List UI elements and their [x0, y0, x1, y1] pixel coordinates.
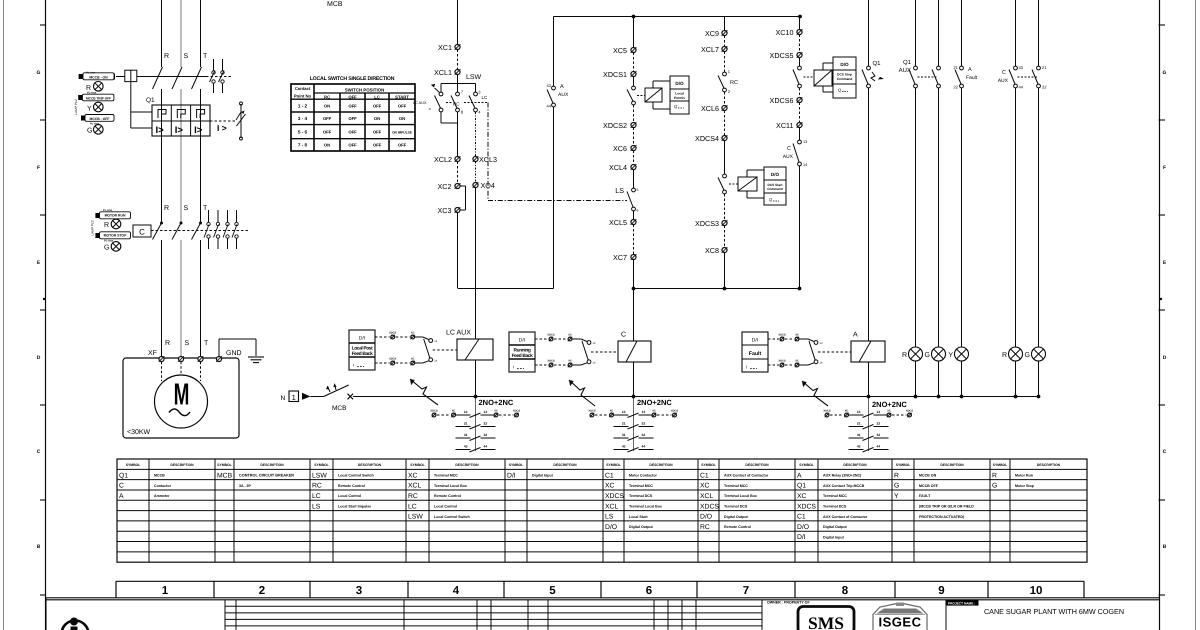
undervoltage coil box: [125, 70, 137, 81]
svg-text:MCB: MCB: [327, 1, 343, 8]
svg-text:D/O: D/O: [700, 514, 712, 521]
trip flag: [240, 104, 242, 138]
svg-text:3: 3: [356, 585, 362, 597]
border tick y215: [40, 214, 46, 216]
contact Q1 trip: [867, 66, 871, 70]
svg-text:XCL1: XCL1: [434, 68, 452, 77]
svg-text:LOCAL SWITCH SINGLE DIRECTI: LOCAL SWITCH SINGLE DIRECTION: [310, 76, 395, 82]
svg-text:MCCB - OFF: MCCB - OFF: [90, 117, 110, 121]
svg-text:XF: XF: [148, 350, 157, 357]
svg-text:A: A: [853, 332, 858, 339]
lamp motor run R: [1009, 347, 1023, 361]
svg-text:Terminal DCS: Terminal DCS: [724, 504, 748, 508]
svg-text:B: B: [37, 544, 41, 550]
svg-text:Permis: Permis: [674, 96, 685, 100]
svg-text:OFF: OFF: [373, 143, 382, 148]
svg-text:ON: ON: [324, 143, 330, 148]
wire XC11 down: [799, 128, 801, 141]
svg-text:D/O: D/O: [605, 524, 617, 531]
thermal element: [177, 110, 185, 119]
svg-text:2NO+2NC: 2NO+2NC: [637, 398, 672, 407]
svg-text:XC: XC: [568, 360, 572, 363]
svg-text:13: 13: [857, 410, 861, 414]
wire column Q1 AUX lamp R: [915, 0, 917, 66]
motor terminal PE: [216, 356, 221, 361]
label project name: [947, 600, 979, 606]
wire trip link dashed: [137, 76, 206, 78]
terminals local post feed back upper: [375, 336, 390, 338]
svg-text:Digital Output: Digital Output: [629, 525, 654, 529]
wire XC5-XDCS1 dashed: [633, 53, 635, 72]
wire XC8 to bottom bus: [724, 253, 726, 289]
wire XC9-XCL7 dashed: [724, 36, 726, 47]
svg-text:ISGEC: ISGEC: [879, 615, 922, 630]
svg-text:MOTOR RUN: MOTOR RUN: [105, 214, 126, 218]
actuate arrow 2: [569, 380, 595, 406]
wire XCL5-XC7 dashed: [633, 225, 635, 255]
relay coil LC AUX: [457, 339, 493, 360]
wire XDCS3-XC8 dashed: [724, 226, 726, 248]
wire XDCS5 down: [799, 58, 801, 67]
changeover contact fault: [799, 338, 808, 340]
svg-text:MCCB ON: MCCB ON: [919, 474, 937, 478]
svg-text:XDCS: XDCS: [906, 410, 913, 413]
wire N line: [353, 396, 1039, 398]
junction top bus x800: [798, 15, 802, 19]
border tick y405: [40, 404, 46, 406]
svg-text:Digital Output: Digital Output: [724, 515, 749, 519]
svg-text:Remote Control: Remote Control: [724, 525, 751, 529]
svg-text:21: 21: [954, 65, 959, 70]
svg-text:8: 8: [842, 585, 849, 597]
svg-text:OFF: OFF: [373, 130, 382, 135]
svg-text:RC: RC: [453, 102, 460, 107]
svg-text:43: 43: [622, 445, 626, 449]
svg-text:XC: XC: [411, 358, 415, 361]
svg-text:C1: C1: [605, 472, 614, 479]
terminal XC8: [722, 247, 727, 252]
svg-text:13: 13: [622, 410, 626, 414]
svg-text:DESCRIPTION: DESCRIPTION: [260, 463, 284, 467]
wire motor leads dashed: [161, 362, 163, 381]
x junction MCB: [348, 394, 354, 400]
wire phase S: [180, 0, 182, 67]
wire XCL3-XO4: [475, 162, 477, 183]
svg-text:<30KW: <30KW: [127, 429, 151, 436]
N terminal box 1: [289, 391, 299, 402]
svg-text:ON: ON: [399, 116, 405, 121]
svg-text:SWITCH POSITION: SWITCH POSITION: [345, 88, 385, 93]
wire column C aux lamp R: [1015, 0, 1017, 66]
svg-text:LS: LS: [615, 186, 624, 195]
svg-text:XDCS: XDCS: [513, 410, 520, 413]
svg-text:4: 4: [453, 585, 460, 597]
svg-text:D/O: D/O: [840, 62, 849, 67]
svg-text:ON: ON: [324, 104, 330, 109]
svg-text:AUX Relay (2NO+2NC): AUX Relay (2NO+2NC): [823, 474, 862, 478]
border right inner: [1159, 0, 1161, 630]
svg-text:I>: I>: [194, 125, 203, 136]
actuate arrow 1: [410, 379, 438, 405]
svg-text:D/O: D/O: [797, 524, 809, 531]
terminal XCL6: [722, 105, 727, 110]
svg-text:22: 22: [642, 422, 646, 426]
svg-text:XC: XC: [797, 493, 807, 500]
svg-text:OFF: OFF: [398, 104, 407, 109]
svg-text:C: C: [1163, 449, 1167, 455]
aux contact block C row 31-32: [614, 437, 629, 439]
svg-text:C: C: [37, 449, 41, 455]
border left inner: [45, 0, 47, 630]
contactor C coil box: [133, 225, 151, 237]
svg-text:D: D: [1163, 355, 1167, 361]
LSW contact RC pins 7 8: [456, 92, 460, 96]
svg-text:DESCRIPTION: DESCRIPTION: [1037, 463, 1061, 467]
svg-text:Local Control Switch: Local Control Switch: [338, 474, 374, 478]
d/o box local permis: [652, 81, 654, 88]
svg-text:21: 21: [857, 422, 861, 426]
svg-text:XDCS2: XDCS2: [603, 121, 627, 130]
svg-text:A: A: [968, 67, 972, 73]
svg-text:DESCRIPTION: DESCRIPTION: [358, 463, 382, 467]
svg-text:Motor Contactor: Motor Contactor: [629, 474, 658, 478]
wire RC-XCL6: [724, 92, 726, 106]
svg-text:I>: I>: [175, 125, 184, 136]
thermal element: [197, 110, 205, 119]
wire XDCS2-XC6 dashed: [633, 128, 635, 146]
svg-text:Digital Output: Digital Output: [823, 525, 848, 529]
svg-text:DESCRIPTION: DESCRIPTION: [170, 463, 194, 467]
wire XC6-XCL4 dashed: [633, 151, 635, 165]
wire LSW bottoms: [440, 112, 442, 123]
lamp MCCB on R: [909, 347, 923, 361]
wire N to MCB: [311, 396, 324, 398]
label plate MCCB TRIP OFF: [82, 94, 114, 101]
wire bus down to coil C: [633, 289, 635, 342]
svg-text:22: 22: [484, 422, 488, 426]
svg-text:XC1: XC1: [438, 43, 452, 52]
company emblem bottom left: [62, 621, 89, 630]
svg-text:3 - 4: 3 - 4: [298, 116, 308, 121]
svg-text:XCL4: XCL4: [609, 163, 627, 172]
svg-text:I: I: [746, 365, 747, 370]
svg-text:21: 21: [464, 422, 468, 426]
junction bottom bus x633: [632, 287, 636, 291]
svg-text:Motor Stop: Motor Stop: [1015, 484, 1035, 488]
svg-text:AUX: AUX: [899, 67, 911, 74]
svg-text:Q1: Q1: [873, 60, 882, 67]
svg-text:R: R: [104, 222, 109, 229]
contact C AUX pair 43 44 / 21 22: [1014, 66, 1018, 70]
svg-text:RC: RC: [324, 95, 330, 100]
svg-text:C: C: [1002, 70, 1006, 76]
svg-text:SYMBOL: SYMBOL: [509, 463, 524, 467]
relay symbol dcs stop: [814, 70, 832, 86]
contact DCS stop: [798, 66, 802, 70]
svg-text:Terminal Local Box: Terminal Local Box: [629, 504, 662, 508]
svg-text:14: 14: [803, 163, 807, 167]
lamp MCCB off G: [932, 347, 946, 361]
svg-text:XC10: XC10: [776, 28, 794, 37]
svg-text:XDCS3: XDCS3: [695, 219, 719, 228]
svg-text:SYMBOL: SYMBOL: [799, 463, 814, 467]
title block divider: [945, 600, 947, 630]
svg-text:14: 14: [877, 410, 881, 414]
svg-text:LAMP P12: LAMP P12: [74, 99, 78, 114]
terminal XDCS6: [797, 97, 802, 102]
svg-text:LC: LC: [374, 95, 380, 100]
contactor aux contact 2: [217, 210, 219, 222]
svg-text:6: 6: [646, 585, 652, 597]
svg-text:C1: C1: [797, 514, 806, 521]
svg-text:Terminal MCC: Terminal MCC: [629, 484, 653, 488]
svg-text:Fault: Fault: [966, 75, 978, 81]
svg-text:G: G: [1025, 352, 1030, 359]
wire coil to breaker: [130, 82, 132, 128]
svg-text:N: N: [281, 395, 286, 402]
border tick y310: [40, 309, 46, 311]
wire lamp fault Y to N: [961, 361, 963, 397]
svg-text:XCL2: XCL2: [434, 155, 452, 164]
dashed RC link: [446, 102, 453, 104]
svg-text:DESCRIPTION: DESCRIPTION: [455, 463, 479, 467]
terminal XCL7: [722, 46, 727, 51]
terminal XC11: [797, 122, 802, 127]
svg-text:D/I: D/I: [507, 472, 516, 479]
wire XDCS1 down: [633, 77, 635, 87]
svg-text:XC: XC: [568, 334, 572, 337]
d/i box running feed back: [509, 332, 535, 372]
terminal XC1: [455, 44, 460, 49]
svg-text:C: C: [621, 332, 626, 339]
aux contact block LC AUX row 31-32: [456, 437, 471, 439]
ground symbol: [248, 356, 264, 358]
svg-text:D/I: D/I: [359, 336, 365, 342]
LSW top bus: [457, 75, 459, 93]
svg-text:44: 44: [1019, 85, 1024, 90]
svg-text:PROTECTION ACTUATED): PROTECTION ACTUATED): [919, 515, 965, 519]
svg-text:XDCS: XDCS: [547, 360, 554, 363]
wire lamp MCCB off G to N: [938, 361, 940, 397]
d/i box local post feed back: [349, 330, 375, 370]
svg-text:2: 2: [259, 585, 265, 597]
contact Q1 AUX pair: [914, 66, 918, 70]
svg-text:XC3: XC3: [438, 206, 452, 215]
motor M circle: [155, 375, 208, 428]
svg-text:22: 22: [954, 85, 959, 90]
wire lamp motor run R to N: [1015, 361, 1017, 397]
svg-text:SYMBOL: SYMBOL: [314, 463, 329, 467]
wire XCL7 down: [724, 52, 726, 73]
terminal XDCS2: [631, 122, 636, 127]
svg-text:21: 21: [1042, 65, 1047, 70]
dashed link to coil C: [591, 351, 618, 353]
svg-text:1 - 2: 1 - 2: [298, 104, 308, 109]
aux contact block C row 13-14: [590, 413, 594, 417]
svg-text:XDCS: XDCS: [823, 410, 830, 413]
legend table grid: [117, 459, 1087, 562]
svg-text:MCCB - ON: MCCB - ON: [89, 76, 108, 80]
contactor aux contact 3: [227, 210, 229, 222]
svg-text:I: I: [513, 365, 514, 370]
svg-text:43: 43: [464, 445, 468, 449]
svg-text:DESCRIPTION: DESCRIPTION: [553, 463, 577, 467]
svg-text:Terminal MCC: Terminal MCC: [434, 474, 458, 478]
svg-text:LS: LS: [312, 503, 321, 510]
terminal XC6: [631, 145, 636, 150]
wire phase T: [200, 0, 202, 67]
svg-text:6: 6: [637, 209, 639, 213]
svg-text:MCB: MCB: [332, 405, 346, 412]
svg-text:OFF: OFF: [348, 116, 357, 121]
svg-text:RC: RC: [730, 80, 738, 86]
wire contact-XDCS2 dashed: [633, 105, 635, 123]
svg-text:SYMBOL: SYMBOL: [606, 463, 621, 467]
svg-text:F: F: [1163, 165, 1166, 171]
terminal XC3: [455, 207, 460, 212]
svg-text:2NO+2NC: 2NO+2NC: [872, 400, 907, 409]
svg-text:31: 31: [622, 433, 626, 437]
svg-text:SYMBOL: SYMBOL: [896, 463, 911, 467]
trip flag dashed: [210, 120, 236, 122]
svg-text:1: 1: [162, 585, 169, 597]
svg-text:Y: Y: [87, 106, 92, 113]
svg-text:14: 14: [642, 410, 646, 414]
wire contact-XDCS3 dashed: [724, 194, 726, 221]
border tick y25: [40, 24, 46, 26]
contactor pole T: [199, 222, 202, 225]
svg-text:ON IMPULSE: ON IMPULSE: [392, 131, 412, 135]
svg-text:OFF: OFF: [348, 95, 357, 100]
border mark mid left: [43, 298, 45, 300]
svg-text:22: 22: [1042, 85, 1047, 90]
svg-text:F: F: [37, 165, 40, 171]
svg-text:43: 43: [857, 445, 861, 449]
wire column lamp G col: [938, 0, 940, 66]
svg-text:14: 14: [484, 410, 488, 414]
svg-text:XC2: XC2: [438, 182, 452, 191]
svg-text:XDCS: XDCS: [430, 410, 437, 413]
svg-text:43: 43: [547, 83, 552, 88]
svg-text:XCL: XCL: [408, 483, 421, 490]
svg-text:R: R: [164, 205, 169, 212]
svg-text:XC11: XC11: [776, 121, 793, 130]
svg-text:Terminal MCC: Terminal MCC: [823, 494, 847, 498]
border mark mid right: [1160, 298, 1162, 300]
svg-text:MOTOR STOP: MOTOR STOP: [104, 234, 127, 238]
svg-text:Local Start: Local Start: [629, 515, 648, 519]
d/o box dcs start: [746, 170, 748, 177]
svg-text:9: 9: [938, 585, 944, 597]
svg-text:XC: XC: [452, 410, 456, 413]
svg-text:Feed Back: Feed Back: [352, 351, 374, 357]
svg-text:SMS: SMS: [808, 613, 844, 630]
d/i box fault: [742, 332, 768, 372]
terminal XO4: [473, 182, 478, 187]
svg-text:DESCRIPTION: DESCRIPTION: [940, 463, 964, 467]
MCB trip arrows: [328, 386, 331, 392]
svg-text:A: A: [119, 493, 124, 500]
svg-text:(MCCB TRIP OR O/LR OR FIELD: (MCCB TRIP OR O/LR OR FIELD: [919, 504, 974, 508]
svg-text:XC: XC: [605, 483, 615, 490]
svg-text:AUX Contact of Contactor: AUX Contact of Contactor: [724, 474, 769, 478]
svg-text:21: 21: [622, 422, 626, 426]
wire XC3 down to bus: [457, 213, 459, 289]
svg-text:G: G: [992, 483, 997, 490]
wire contact-XDCS6 dashed: [799, 88, 801, 98]
svg-text:44: 44: [877, 445, 881, 449]
svg-text:G: G: [925, 352, 930, 359]
label plate MCCB - OFF: [85, 115, 114, 122]
jumper XC2-XC3: [461, 185, 466, 187]
svg-text:G: G: [104, 245, 109, 252]
N arrow: [302, 393, 311, 400]
svg-text:Local: Local: [675, 92, 684, 96]
thermal element: [158, 110, 166, 119]
svg-text:43: 43: [1019, 65, 1024, 70]
svg-text:Q1: Q1: [146, 97, 155, 104]
svg-text:22: 22: [877, 422, 881, 426]
svg-text:C: C: [119, 483, 124, 490]
svg-text:XC7: XC7: [613, 253, 627, 262]
svg-text:44: 44: [547, 104, 552, 109]
svg-text:XDCS: XDCS: [605, 493, 624, 500]
svg-text:Terminal MCC: Terminal MCC: [724, 484, 748, 488]
svg-text:ON: ON: [374, 116, 380, 121]
wire A contact stem: [868, 396, 870, 451]
terminal XDCS1: [631, 71, 636, 76]
wire coil C to N: [633, 362, 635, 397]
svg-text:T: T: [204, 340, 209, 347]
motor tilde: [169, 409, 190, 416]
svg-text:AUX: AUX: [998, 78, 1009, 84]
logo SMS: [798, 607, 854, 630]
svg-text:Running: Running: [514, 347, 531, 353]
svg-text:Local Control: Local Control: [434, 504, 457, 508]
svg-text:13: 13: [464, 410, 468, 414]
svg-text:GND: GND: [226, 350, 242, 357]
svg-text:XCL7: XCL7: [701, 45, 719, 54]
svg-text:XDCS: XDCS: [797, 503, 816, 510]
wire C AUX to bottom bus: [799, 166, 801, 288]
table local switch grid: [291, 84, 415, 151]
wire column A fault lamp Y: [961, 0, 963, 66]
svg-text:LSW: LSW: [312, 472, 327, 479]
title block left edge: [45, 598, 47, 630]
terminals fault upper: [768, 338, 779, 340]
svg-text:XCL5: XCL5: [609, 218, 627, 227]
svg-text:RC: RC: [408, 493, 418, 500]
wire LS-XCL5: [633, 211, 635, 220]
svg-text:AUX Contact of Contactor: AUX Contact of Contactor: [823, 515, 868, 519]
svg-text:31: 31: [857, 433, 861, 437]
border tick y500: [40, 499, 46, 501]
svg-text:OFF: OFF: [323, 116, 332, 121]
svg-text:7: 7: [743, 585, 749, 597]
svg-text:MCCB OFF: MCCB OFF: [919, 484, 939, 488]
svg-text:Digital Input: Digital Input: [823, 535, 845, 539]
svg-text:C1: C1: [700, 472, 709, 479]
border right outer: [1195, 0, 1197, 630]
terminal XC2: [455, 183, 460, 188]
svg-text:XC: XC: [795, 360, 799, 363]
switch MCB: [324, 385, 349, 397]
svg-text:10: 10: [1030, 585, 1043, 597]
svg-text:XCL6: XCL6: [701, 104, 719, 113]
wire XCL2-XC2 dashed: [457, 162, 459, 184]
contact DCS permissive: [632, 86, 636, 90]
contact A fault 21 22: [960, 66, 964, 70]
